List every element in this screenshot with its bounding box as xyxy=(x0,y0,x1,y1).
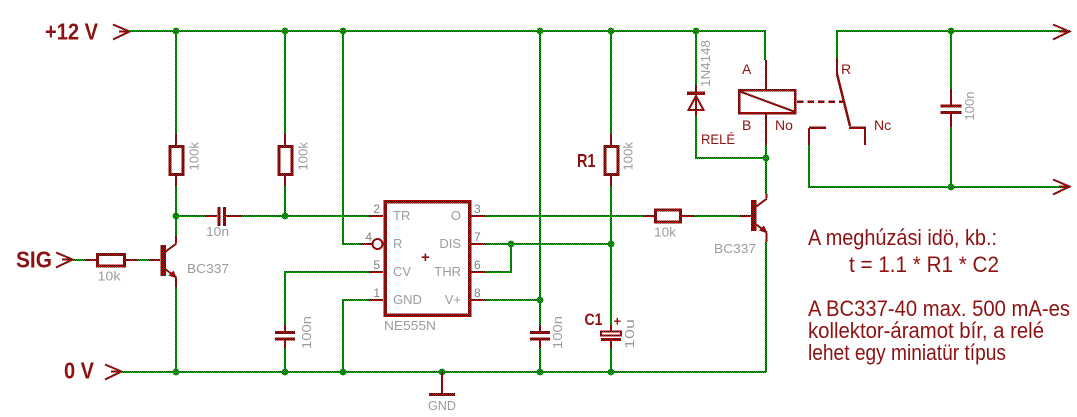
svg-text:8: 8 xyxy=(474,286,481,300)
arrow output top xyxy=(1053,25,1070,40)
svg-text:THR: THR xyxy=(434,264,461,279)
wire 100n C5 top xyxy=(950,31,952,89)
wire 100k R3 top xyxy=(284,31,286,134)
wire C1 to 0V xyxy=(610,348,612,372)
resistor R3 100k xyxy=(279,134,311,186)
svg-text:10n: 10n xyxy=(206,224,229,239)
svg-text:2: 2 xyxy=(373,202,380,216)
resistor R1 100k xyxy=(577,134,636,186)
ground symbol xyxy=(428,372,456,413)
node 0V x285 xyxy=(282,369,289,376)
svg-text:R: R xyxy=(841,61,851,77)
svg-text:100k: 100k xyxy=(187,142,202,171)
capacitor C1 10u electrolytic xyxy=(585,310,638,349)
wire 100k R3 bottom xyxy=(284,186,286,216)
arrow 0V input xyxy=(105,365,122,380)
node top rail x696 xyxy=(693,28,700,35)
relay contact R / No / Nc xyxy=(797,58,891,145)
svg-text:+: + xyxy=(614,314,622,329)
wire relay B to node xyxy=(765,145,767,158)
wire 100k R2 top xyxy=(175,31,177,134)
svg-text:R1: R1 xyxy=(577,151,596,171)
svg-text:10k: 10k xyxy=(654,225,677,240)
resistor R4 10k xyxy=(85,255,137,284)
svg-text:100n: 100n xyxy=(550,316,565,349)
wire +12V down to relay pin A xyxy=(764,31,766,60)
arrow +12V input xyxy=(113,25,130,40)
wire top +12V rail xyxy=(130,30,766,32)
wire 100k R2 bottom xyxy=(175,186,177,216)
wire R5 to Q2 base xyxy=(694,215,740,217)
node top rail x176 xyxy=(173,28,180,35)
node TR wire x176 xyxy=(173,213,180,220)
svg-text:Nc: Nc xyxy=(874,117,891,133)
wire 0V rail xyxy=(122,371,766,373)
node top rail x285 xyxy=(282,28,289,35)
transistor Q1 BC337 xyxy=(149,236,229,287)
wire diode top xyxy=(695,31,697,85)
svg-text:SIG: SIG xyxy=(16,247,52,273)
node top rail x540 xyxy=(537,28,544,35)
svg-text:RELÉ: RELÉ xyxy=(701,131,735,147)
wire CV to C3 xyxy=(285,272,369,325)
node 0V x442 xyxy=(439,369,446,376)
wire x540 vertical xyxy=(539,31,541,325)
node relay/collector xyxy=(763,155,770,162)
node right rail x951 bottom xyxy=(948,184,955,191)
svg-text:No: No xyxy=(775,117,793,133)
svg-text:NE555N: NE555N xyxy=(384,318,436,333)
wire diode bottom to node xyxy=(696,115,766,158)
wire DIS junction xyxy=(485,243,611,245)
svg-text:A: A xyxy=(742,61,752,77)
resistor R5 10k xyxy=(643,210,694,240)
wire collector Q1 to C2 xyxy=(176,215,205,217)
svg-text:100n: 100n xyxy=(299,316,314,349)
wire 100n C5 bottom xyxy=(950,127,952,187)
wire THR to DIS xyxy=(485,244,511,272)
op-amp U1 NE555N xyxy=(361,202,485,333)
wire C2 to TR xyxy=(242,215,369,217)
node 0V x611 xyxy=(608,369,615,376)
svg-text:DIS: DIS xyxy=(439,236,461,251)
svg-text:A meghúzási idö, kb.:: A meghúzási idö, kb.: xyxy=(808,225,997,250)
svg-text:10k: 10k xyxy=(98,269,122,284)
relay K1 coil xyxy=(701,60,795,147)
svg-text:O: O xyxy=(451,208,461,223)
wire C4 to 0V xyxy=(539,348,541,372)
svg-text:R: R xyxy=(393,236,402,251)
svg-text:V+: V+ xyxy=(445,292,461,307)
capacitor C3 100n xyxy=(275,316,314,349)
wire R4 to Q1 base xyxy=(137,259,149,261)
svg-text:0 V: 0 V xyxy=(64,358,95,384)
svg-text:GND: GND xyxy=(428,398,456,413)
svg-text:GND: GND xyxy=(393,292,422,307)
node 0V x343 xyxy=(340,369,347,376)
svg-text:CV: CV xyxy=(393,264,411,279)
node DIS x611 xyxy=(608,241,615,248)
svg-text:+12 V: +12 V xyxy=(45,19,99,45)
node DIS x511 xyxy=(508,241,515,248)
wire R1 top xyxy=(610,31,612,134)
wire reset R pin from +12V xyxy=(343,31,361,244)
svg-text:BC337: BC337 xyxy=(187,261,229,276)
wire V+ to rail x540 xyxy=(485,299,540,301)
svg-text:7: 7 xyxy=(474,230,481,244)
arrow SIG input xyxy=(56,253,73,268)
capacitor C2 10n xyxy=(205,207,242,239)
capacitor C5 100n xyxy=(941,89,978,127)
node top rail x611 xyxy=(608,28,615,35)
svg-text:BC337: BC337 xyxy=(714,241,756,256)
wire node to Q2 collector xyxy=(765,158,767,194)
node top rail x343 xyxy=(340,28,347,35)
svg-text:100n: 100n xyxy=(962,92,977,121)
svg-text:100k: 100k xyxy=(621,142,636,171)
wire Q1 emitter down xyxy=(175,287,177,372)
wire contact R to top right rail xyxy=(837,31,1070,58)
node right rail x951 xyxy=(948,28,955,35)
wire R1 bottom xyxy=(610,186,612,244)
svg-text:C1: C1 xyxy=(585,310,603,329)
wire C3 to 0V xyxy=(284,348,286,372)
svg-text:3: 3 xyxy=(474,202,481,216)
arrow output bottom xyxy=(1053,180,1070,195)
node 0V x540 xyxy=(537,369,544,376)
wire SIG to R4 xyxy=(73,259,85,261)
node TR wire x285 xyxy=(282,213,289,220)
wire No to bottom right rail xyxy=(809,145,1070,187)
capacitor C4 100n xyxy=(530,316,565,349)
svg-text:10u: 10u xyxy=(622,319,637,349)
wire Q1 collector up xyxy=(175,216,177,236)
node 0V x176 xyxy=(173,369,180,376)
wire R1 node to C1 xyxy=(610,244,612,325)
svg-text:6: 6 xyxy=(474,258,481,272)
svg-text:1: 1 xyxy=(373,286,380,300)
svg-text:5: 5 xyxy=(373,258,380,272)
resistor R2 100k xyxy=(170,134,202,186)
svg-text:B: B xyxy=(742,117,751,133)
svg-text:TR: TR xyxy=(393,208,410,223)
svg-text:lehet egy miniatür típus: lehet egy miniatür típus xyxy=(808,340,1006,365)
diode D1 1N4148 xyxy=(687,40,713,115)
transistor Q2 BC337 xyxy=(714,194,768,256)
svg-text:+: + xyxy=(421,249,430,266)
wire O pin3 to R5 xyxy=(485,215,643,217)
wire GND pin1 to 0V xyxy=(343,300,369,372)
svg-text:1N4148: 1N4148 xyxy=(698,40,713,87)
svg-text:t = 1.1 * R1 * C2: t = 1.1 * R1 * C2 xyxy=(849,252,999,277)
svg-text:100k: 100k xyxy=(296,142,311,171)
svg-text:4: 4 xyxy=(365,230,372,244)
node V+ x540 xyxy=(537,297,544,304)
wire Q2 emitter to 0V xyxy=(765,242,767,372)
